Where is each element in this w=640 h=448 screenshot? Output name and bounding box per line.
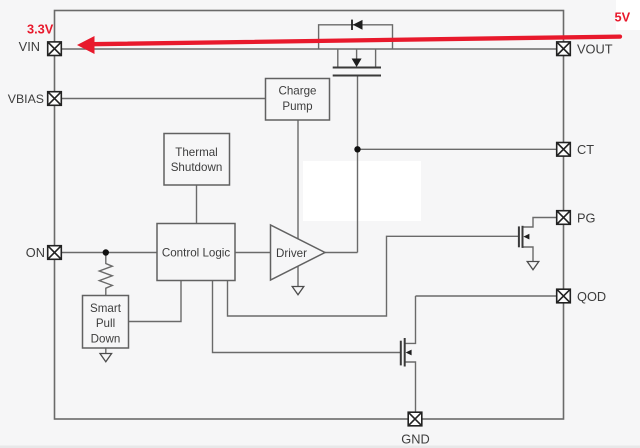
svg-text:Pull: Pull <box>96 317 115 330</box>
svg-text:GND: GND <box>401 432 429 447</box>
svg-text:VIN: VIN <box>19 39 40 54</box>
svg-text:Driver: Driver <box>276 247 307 260</box>
svg-text:Smart: Smart <box>90 302 122 315</box>
svg-text:Down: Down <box>91 333 121 346</box>
svg-text:Thermal: Thermal <box>175 146 218 159</box>
svg-text:VBIAS: VBIAS <box>8 92 44 106</box>
svg-text:Pump: Pump <box>282 100 312 113</box>
svg-text:QOD: QOD <box>577 289 606 304</box>
svg-text:Shutdown: Shutdown <box>171 161 223 174</box>
svg-text:CT: CT <box>577 142 594 157</box>
svg-text:5V: 5V <box>615 10 631 25</box>
svg-text:VOUT: VOUT <box>577 42 613 57</box>
svg-text:PG: PG <box>577 211 596 226</box>
svg-text:ON: ON <box>26 245 45 260</box>
svg-text:Control Logic: Control Logic <box>162 247 231 260</box>
svg-text:Charge: Charge <box>278 85 316 98</box>
svg-text:3.3V: 3.3V <box>27 22 54 37</box>
